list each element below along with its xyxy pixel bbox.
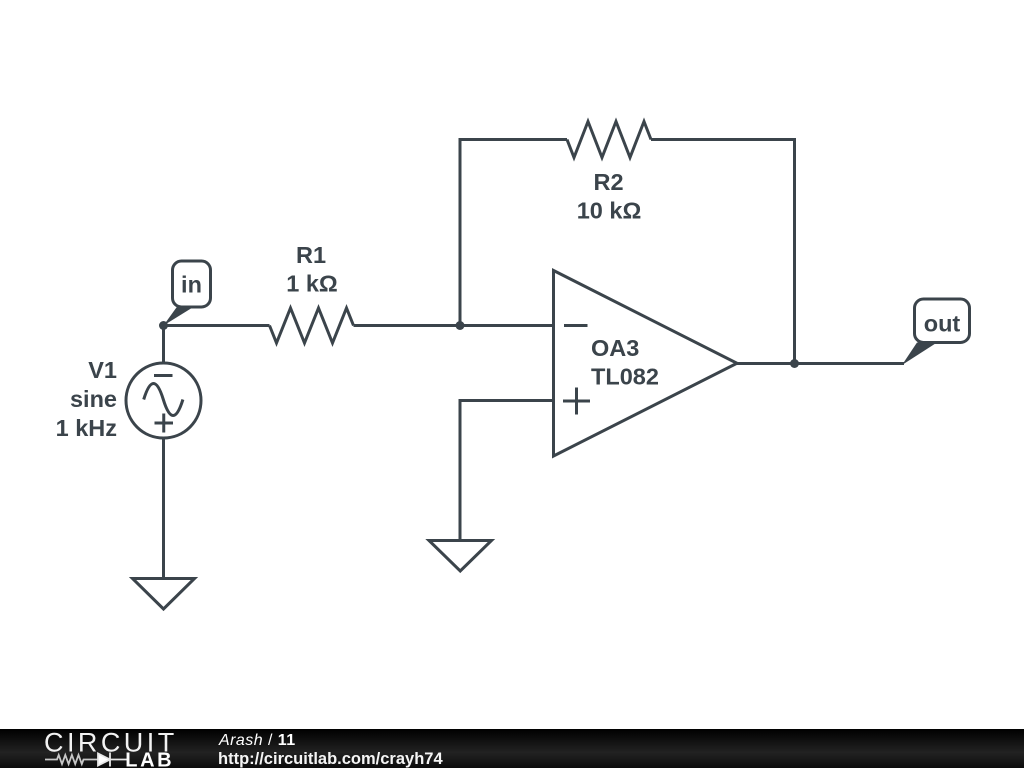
wire: in node to R1 — [164, 324, 270, 327]
svg-text:V1: V1 — [88, 357, 117, 383]
ground at op-amp non-inverting input — [429, 541, 492, 572]
CircuitLab logo diode — [98, 753, 128, 767]
junction: inverting input node — [456, 321, 465, 330]
svg-text:LAB: LAB — [125, 750, 174, 768]
flag out box — [915, 299, 970, 343]
flag in tail — [164, 306, 196, 326]
V1 plus marker — [155, 414, 174, 433]
junction: in node — [159, 321, 168, 330]
flag out tail — [902, 343, 937, 366]
svg-text:OA3: OA3 — [591, 335, 639, 361]
wire: op-amp output — [737, 362, 904, 365]
V1 minus marker — [154, 374, 173, 377]
op-amp non-inverting input marker — [563, 388, 590, 415]
svg-text:1 kΩ: 1 kΩ — [286, 271, 338, 297]
voltage source V1 body — [126, 363, 201, 438]
wire: R2 to output node — [651, 140, 795, 364]
ground at V1 — [133, 579, 195, 610]
svg-text:1 kHz: 1 kHz — [56, 415, 117, 441]
svg-text:10 kΩ: 10 kΩ — [577, 198, 642, 224]
flag in box — [173, 261, 211, 307]
op-amp OA3 — [554, 271, 738, 457]
wire: in node to V1 top — [162, 326, 165, 364]
svg-text:http://circuitlab.com/crayh74: http://circuitlab.com/crayh74 — [218, 750, 443, 768]
svg-text:out: out — [924, 311, 961, 337]
V1 sine symbol — [144, 384, 183, 416]
wire: feedback left vertical and top — [460, 140, 567, 326]
op-amp inverting input marker — [564, 324, 588, 327]
wire: non-inverting input to ground — [460, 401, 554, 541]
wire: R1 to op-amp inverting input — [354, 324, 554, 327]
junction: output node — [790, 359, 799, 368]
resistor R2 — [567, 122, 651, 158]
svg-text:TL082: TL082 — [591, 364, 659, 390]
CircuitLab logo schematic line with resistor — [45, 755, 98, 764]
svg-text:Arash / 11: Arash / 11 — [218, 732, 296, 749]
svg-text:R1: R1 — [296, 242, 326, 268]
svg-text:in: in — [181, 272, 202, 298]
resistor R1 — [270, 308, 354, 343]
svg-text:sine: sine — [70, 386, 117, 412]
wire: V1 bottom to ground — [162, 438, 165, 579]
svg-text:R2: R2 — [593, 169, 623, 195]
